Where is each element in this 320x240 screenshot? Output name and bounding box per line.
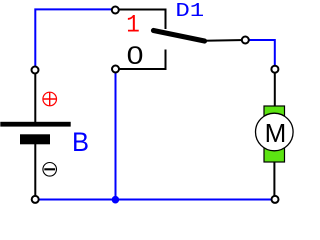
battery B negative plate <box>20 134 50 144</box>
terminal: switch pole 1 <box>112 7 119 14</box>
wire: battery positive up left side and across top to switch pole 1 <box>35 9 115 70</box>
switch D1 blade (set to position 1) <box>154 31 205 42</box>
svg-text:0: 0 <box>127 42 144 70</box>
terminal: battery top <box>32 67 39 74</box>
terminal: battery bottom <box>32 196 39 203</box>
wire: switch throw 0 down to bottom rail <box>115 69 117 200</box>
terminal: motor top <box>271 66 278 73</box>
battery B positive plate <box>0 122 70 127</box>
lead: motor top terminal to body <box>274 69 276 107</box>
lead: switch blade to common terminal <box>204 39 245 42</box>
svg-text:M: M <box>265 118 287 148</box>
svg-text:1: 1 <box>126 11 140 40</box>
battery polarity symbol minus <box>43 163 57 177</box>
motor circle <box>255 113 293 151</box>
lead: motor body to bottom terminal <box>273 161 275 199</box>
lead: switch throw 0 contact arm <box>116 50 166 70</box>
lead: switch pole 1 contact arm <box>115 10 165 30</box>
wire: bottom rail from battery negative to motor bottom <box>35 199 275 201</box>
svg-text:D1: D1 <box>175 0 204 22</box>
junction: bottom rail / switch-0 branch <box>112 196 120 204</box>
terminal: motor bottom <box>272 196 279 203</box>
battery polarity symbol plus <box>43 92 57 106</box>
lead: battery bottom plate to bottom terminal <box>34 144 36 199</box>
svg-text:B: B <box>72 127 89 157</box>
terminal: switch common output <box>242 37 249 44</box>
lead: battery top terminal to plate <box>34 70 36 122</box>
wire: switch common to motor top <box>245 40 275 69</box>
motor body green rectangle <box>264 106 285 162</box>
terminal: switch throw 0 <box>112 66 119 73</box>
